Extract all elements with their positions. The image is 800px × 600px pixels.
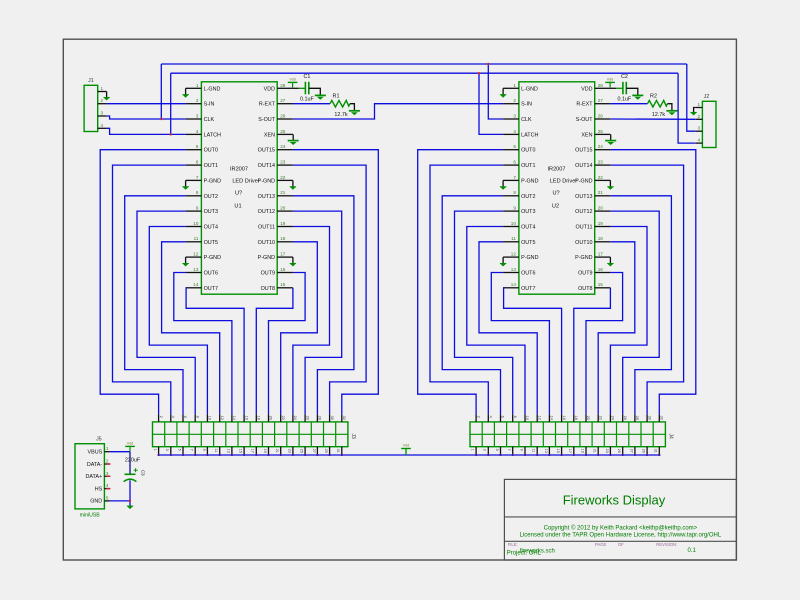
svg-text:2: 2 <box>159 416 163 418</box>
svg-text:24: 24 <box>280 144 286 149</box>
svg-text:5: 5 <box>106 495 109 500</box>
svg-text:5: 5 <box>513 144 516 149</box>
svg-text:CLK: CLK <box>204 117 215 123</box>
svg-text:OF: OF <box>618 542 624 547</box>
svg-text:8: 8 <box>513 416 517 418</box>
svg-text:DATA+: DATA+ <box>85 474 102 480</box>
svg-text:OUT8: OUT8 <box>578 286 592 292</box>
Vdd power symbol at U2 pin 28 <box>609 82 611 87</box>
svg-text:J2: J2 <box>704 94 710 100</box>
svg-text:OUT0: OUT0 <box>204 148 218 154</box>
svg-text:9: 9 <box>519 449 523 451</box>
svg-text:11: 11 <box>511 236 516 241</box>
svg-text:OUT11: OUT11 <box>258 225 275 231</box>
svg-text:25: 25 <box>598 129 604 134</box>
svg-text:P-GND: P-GND <box>204 255 221 261</box>
svg-text:13: 13 <box>544 449 548 453</box>
svg-text:17: 17 <box>598 252 604 257</box>
wire U2 OUT7 to J4 <box>503 288 561 415</box>
svg-text:18: 18 <box>574 416 578 420</box>
svg-text:24: 24 <box>293 416 297 420</box>
svg-text:10: 10 <box>193 221 199 226</box>
svg-text:R2: R2 <box>650 93 657 99</box>
svg-text:LATCH: LATCH <box>204 132 221 138</box>
svg-text:0.1: 0.1 <box>688 548 697 554</box>
resistor R2 <box>648 100 668 107</box>
svg-text:14: 14 <box>193 282 199 287</box>
svg-text:20: 20 <box>586 416 590 420</box>
svg-text:23: 23 <box>280 160 286 165</box>
svg-text:OUT10: OUT10 <box>258 240 275 246</box>
J5 unconnected pin cues <box>106 463 110 465</box>
U1 left pin stubs 1-14 <box>186 87 202 89</box>
wire U2 OUT5 to J4 <box>479 242 537 415</box>
svg-text:C1: C1 <box>303 74 310 80</box>
wire U2 OUT12 to J4 <box>610 211 659 414</box>
svg-text:VDD: VDD <box>264 86 275 92</box>
svg-text:1: 1 <box>513 83 516 88</box>
wire U2 OUT14 to J4 <box>610 165 683 414</box>
R1 ground symbol <box>349 110 360 112</box>
wire U1 S-OUT to U2 S-IN <box>293 104 503 119</box>
C2 ground symbol <box>632 94 643 96</box>
svg-text:5: 5 <box>196 144 199 149</box>
svg-text:S-OUT: S-OUT <box>258 117 275 123</box>
wire J1 pin3 to CLK net <box>107 116 186 119</box>
svg-text:18: 18 <box>257 416 261 420</box>
svg-text:Copyright © 2012 by Keith Pack: Copyright © 2012 by Keith Packard <keith… <box>544 525 698 532</box>
svg-text:C2: C2 <box>621 74 628 80</box>
wire U2 OUT11 to J4 <box>610 227 647 415</box>
svg-text:S-IN: S-IN <box>521 102 532 108</box>
connector J2 body <box>702 101 716 147</box>
svg-text:OUT5: OUT5 <box>204 240 218 246</box>
U1 pin12 P-GND ground symbol <box>185 257 187 263</box>
svg-text:OUT3: OUT3 <box>521 209 535 215</box>
U2 R-EXT wire <box>610 103 647 105</box>
U2 right pin stubs 15-28 <box>595 87 611 89</box>
svg-text:OUT1: OUT1 <box>521 163 535 169</box>
svg-text:11: 11 <box>214 449 218 453</box>
svg-text:Licensed under the TAPR Open H: Licensed under the TAPR Open Hardware Li… <box>520 533 722 539</box>
svg-text:17: 17 <box>568 449 572 453</box>
R2 ground wire <box>668 104 672 111</box>
wire CLK tap to U2 pin3 <box>488 64 503 119</box>
wire U1 OUT1 to J3 <box>113 165 186 414</box>
svg-text:3: 3 <box>165 449 169 451</box>
svg-text:Vdd: Vdd <box>607 78 613 82</box>
svg-text:25: 25 <box>300 449 304 453</box>
svg-text:12: 12 <box>511 252 517 257</box>
Vdd power symbol at VBUS <box>129 446 131 451</box>
svg-text:6: 6 <box>501 416 505 418</box>
svg-text:J4: J4 <box>668 434 674 440</box>
svg-text:OUT2: OUT2 <box>204 194 218 200</box>
svg-text:27: 27 <box>598 98 604 103</box>
wire U2 S-OUT to J2 pin2 <box>610 118 695 120</box>
svg-text:P-GND: P-GND <box>258 178 275 184</box>
svg-text:21: 21 <box>280 190 286 195</box>
wire LATCH bus riser at U1 <box>170 73 172 134</box>
svg-text:4: 4 <box>489 416 493 418</box>
wire U2 OUT8 to J4 <box>574 288 611 415</box>
wire VBUS to capacitor C3 <box>129 452 131 475</box>
svg-text:29: 29 <box>642 449 646 453</box>
wire J1 pin2 S-IN to U1 pin2 <box>107 103 186 105</box>
svg-text:32: 32 <box>660 416 664 420</box>
svg-text:17: 17 <box>251 449 255 453</box>
svg-text:2: 2 <box>106 459 109 464</box>
svg-text:R-EXT: R-EXT <box>576 102 593 108</box>
svg-text:REVISION:: REVISION: <box>656 542 677 547</box>
svg-text:5: 5 <box>495 449 499 451</box>
svg-text:IR2007: IR2007 <box>547 167 565 173</box>
svg-text:Fireworks Display: Fireworks Display <box>563 493 666 508</box>
svg-text:OUT8: OUT8 <box>261 286 275 292</box>
junction LATCH tap <box>478 72 480 74</box>
U2 pin22 P-GND ground symbol <box>609 180 611 186</box>
capacitor C1 <box>299 87 306 89</box>
wire J5 GND to ground net <box>110 500 130 502</box>
ground symbol below C3 <box>127 506 133 509</box>
U1 pin17 P-GND ground symbol <box>292 257 294 263</box>
svg-text:OUT10: OUT10 <box>575 240 592 246</box>
svg-text:0.1uF: 0.1uF <box>618 97 632 103</box>
svg-text:17: 17 <box>280 252 286 257</box>
svg-text:4: 4 <box>101 123 104 128</box>
svg-text:12: 12 <box>193 252 199 257</box>
svg-text:28: 28 <box>635 416 639 420</box>
svg-text:31: 31 <box>654 449 658 453</box>
svg-text:J5: J5 <box>96 437 102 443</box>
svg-text:XEN: XEN <box>264 132 275 138</box>
svg-text:1: 1 <box>698 102 701 107</box>
svg-text:C3: C3 <box>141 470 146 476</box>
svg-text:VBUS: VBUS <box>88 450 103 456</box>
svg-text:30: 30 <box>647 416 651 420</box>
wire U2 OUT4 to J4 <box>467 227 525 415</box>
connector J3 2x16 header body <box>153 422 348 447</box>
svg-text:19: 19 <box>263 449 267 453</box>
svg-text:24: 24 <box>598 144 604 149</box>
svg-text:15: 15 <box>556 449 560 453</box>
svg-text:L-GND: L-GND <box>521 86 538 92</box>
svg-text:32: 32 <box>342 416 346 420</box>
J3 bottom pin stubs <box>158 447 160 455</box>
svg-text:OUT15: OUT15 <box>258 148 275 154</box>
svg-text:6: 6 <box>196 160 199 165</box>
U2 pin1 L-GND ground symbol <box>502 88 504 94</box>
svg-text:26: 26 <box>598 113 604 118</box>
svg-text:13: 13 <box>226 449 230 453</box>
svg-text:miniUSB: miniUSB <box>80 513 101 519</box>
IC U2 IR2007 LED driver body <box>519 82 595 294</box>
svg-text:IR2007: IR2007 <box>230 167 248 173</box>
svg-text:PAGE: PAGE <box>595 542 607 547</box>
wire Vdd bottom bus <box>158 454 661 456</box>
U1 right pin stubs 15-28 <box>277 87 293 89</box>
svg-text:25: 25 <box>617 449 621 453</box>
svg-text:31: 31 <box>336 449 340 453</box>
svg-text:R-EXT: R-EXT <box>259 102 276 108</box>
svg-text:6: 6 <box>183 416 187 418</box>
svg-text:7: 7 <box>507 449 511 451</box>
svg-text:P-GND: P-GND <box>204 178 221 184</box>
J4 top pin stubs <box>475 414 477 422</box>
U2 pin25 XEN ground <box>610 134 612 140</box>
svg-text:3: 3 <box>483 449 487 451</box>
svg-text:4: 4 <box>513 129 516 134</box>
U2 VDD pin28 wire <box>610 87 616 89</box>
connector J1 body <box>84 85 98 131</box>
title block divider 1 <box>504 516 736 518</box>
U1 R-EXT wire <box>293 103 330 105</box>
svg-text:12: 12 <box>220 416 224 420</box>
J2 pin stubs <box>696 107 703 109</box>
svg-text:30: 30 <box>330 416 334 420</box>
svg-text:1: 1 <box>106 446 109 451</box>
svg-text:OUT12: OUT12 <box>575 209 592 215</box>
svg-text:OUT9: OUT9 <box>261 271 275 277</box>
wire LATCH bus horizontal <box>171 72 678 74</box>
svg-text:2: 2 <box>101 98 104 103</box>
svg-text:14: 14 <box>232 416 236 420</box>
svg-text:13: 13 <box>511 267 517 272</box>
svg-text:HS: HS <box>95 486 103 492</box>
capacitor C3 polarized 220uF <box>125 473 136 475</box>
svg-text:15: 15 <box>239 449 243 453</box>
svg-text:16: 16 <box>562 416 566 420</box>
svg-text:21: 21 <box>598 190 604 195</box>
svg-text:7: 7 <box>513 175 516 180</box>
capacitor C2 <box>616 87 623 89</box>
svg-text:2: 2 <box>698 114 701 119</box>
svg-text:OUT7: OUT7 <box>521 286 535 292</box>
svg-text:16: 16 <box>244 416 248 420</box>
svg-text:2: 2 <box>513 98 516 103</box>
J4 bottom bus junction dots <box>475 454 477 456</box>
svg-text:OUT14: OUT14 <box>258 163 275 169</box>
svg-text:XEN: XEN <box>581 132 592 138</box>
svg-text:15: 15 <box>280 282 286 287</box>
svg-text:18: 18 <box>598 236 604 241</box>
svg-text:5: 5 <box>177 449 181 451</box>
svg-text:P-GND: P-GND <box>521 255 538 261</box>
U2 pin12 P-GND ground symbol <box>502 257 504 263</box>
svg-text:9: 9 <box>513 206 516 211</box>
J5 pin stubs <box>104 451 110 453</box>
svg-text:13: 13 <box>193 267 199 272</box>
svg-text:3: 3 <box>196 113 199 118</box>
svg-text:LED Driver: LED Driver <box>232 178 259 184</box>
wire U1 OUT8 to J3 <box>256 288 293 415</box>
svg-text:28: 28 <box>280 83 286 88</box>
svg-text:OUT6: OUT6 <box>204 271 218 277</box>
svg-text:P-GND: P-GND <box>521 178 538 184</box>
svg-text:J3: J3 <box>350 434 356 440</box>
svg-text:OUT2: OUT2 <box>521 194 535 200</box>
svg-text:4: 4 <box>171 416 175 418</box>
wire U2 OUT1 to J4 <box>430 165 503 414</box>
resistor R1 <box>330 100 350 107</box>
svg-text:1: 1 <box>153 449 157 451</box>
wire U1 OUT6 to J3 <box>174 273 232 415</box>
svg-text:14: 14 <box>511 282 517 287</box>
svg-text:4: 4 <box>196 129 199 134</box>
svg-text:DATA-: DATA- <box>87 462 103 468</box>
svg-text:16: 16 <box>598 267 604 272</box>
wire U1 OUT5 to J3 <box>162 242 220 415</box>
svg-text:8: 8 <box>513 190 516 195</box>
svg-text:OUT9: OUT9 <box>578 271 592 277</box>
svg-text:Project: OHL: Project: OHL <box>507 551 542 557</box>
svg-text:22: 22 <box>280 175 286 180</box>
R1 ground wire <box>350 104 354 111</box>
svg-text:29: 29 <box>324 449 328 453</box>
svg-text:9: 9 <box>196 206 199 211</box>
svg-text:21: 21 <box>593 449 597 453</box>
svg-text:OUT15: OUT15 <box>575 148 592 154</box>
wire U2 OUT13 to J4 <box>610 196 671 415</box>
svg-text:10: 10 <box>511 221 517 226</box>
svg-text:3: 3 <box>106 471 109 476</box>
svg-text:22: 22 <box>281 416 285 420</box>
wire J5 VBUS to Vdd <box>110 451 130 453</box>
svg-text:2: 2 <box>196 98 199 103</box>
wire U1 OUT13 to J3 <box>293 196 354 415</box>
wire U2 OUT15 to J4 <box>610 150 695 415</box>
U1 pin25 XEN ground <box>292 134 294 140</box>
svg-text:U2: U2 <box>552 204 559 210</box>
J3 top pin stubs <box>158 414 160 422</box>
svg-text:VDD: VDD <box>581 86 592 92</box>
svg-text:26: 26 <box>280 113 286 118</box>
wire LATCH to J2 pin4 <box>678 73 696 143</box>
svg-text:11: 11 <box>532 449 536 453</box>
svg-text:3: 3 <box>513 113 516 118</box>
junction CLK tap <box>487 63 489 65</box>
svg-text:OUT1: OUT1 <box>204 163 218 169</box>
svg-text:OUT4: OUT4 <box>521 225 535 231</box>
svg-text:28: 28 <box>318 416 322 420</box>
U1 pin22 P-GND ground symbol <box>292 180 294 186</box>
wire U1 OUT0 to J3 <box>100 150 185 415</box>
svg-text:1: 1 <box>101 86 104 91</box>
svg-text:Vdd: Vdd <box>289 78 295 82</box>
svg-text:4: 4 <box>698 138 701 143</box>
junction CLK at U1 <box>160 118 162 120</box>
svg-text:P-GND: P-GND <box>258 255 275 261</box>
wire U1 OUT7 to J3 <box>186 288 245 415</box>
svg-text:S-IN: S-IN <box>204 102 215 108</box>
svg-text:18: 18 <box>280 236 286 241</box>
R2 ground symbol <box>666 110 677 112</box>
svg-text:12.7k: 12.7k <box>334 112 347 118</box>
IC U1 IR2007 LED driver body <box>201 82 277 294</box>
svg-text:14: 14 <box>550 416 554 420</box>
svg-text:28: 28 <box>598 83 604 88</box>
wire U2 OUT6 to J4 <box>491 273 549 415</box>
svg-text:1: 1 <box>471 449 475 451</box>
svg-text:OUT5: OUT5 <box>521 240 535 246</box>
svg-text:CLK: CLK <box>521 117 532 123</box>
J1 pin1 ground wire and symbol <box>106 92 108 98</box>
svg-text:LATCH: LATCH <box>521 132 538 138</box>
svg-text:19: 19 <box>280 221 286 226</box>
svg-text:P-GND: P-GND <box>575 178 592 184</box>
U2 pin17 P-GND ground symbol <box>609 257 611 263</box>
svg-text:27: 27 <box>312 449 316 453</box>
svg-text:S-OUT: S-OUT <box>576 117 593 123</box>
svg-text:26: 26 <box>305 416 309 420</box>
C2 ground wire <box>626 88 638 95</box>
wire U1 OUT11 to J3 <box>293 227 330 415</box>
svg-text:6: 6 <box>513 160 516 165</box>
U1 pin7 P-GND ground symbol <box>185 180 187 186</box>
wire LATCH tap to U2 pin4 <box>479 73 503 134</box>
U2 pin7 P-GND ground symbol <box>502 180 504 186</box>
svg-text:22: 22 <box>598 175 604 180</box>
svg-text:12: 12 <box>537 416 541 420</box>
svg-text:8: 8 <box>196 190 199 195</box>
svg-text:OUT13: OUT13 <box>575 194 592 200</box>
C1 ground wire <box>309 88 321 95</box>
svg-text:OUT7: OUT7 <box>204 286 218 292</box>
svg-text:7: 7 <box>196 175 199 180</box>
connector J4 2x16 header body <box>470 422 665 447</box>
svg-text:Vdd: Vdd <box>127 442 133 446</box>
wire U1 OUT15 to J3 <box>293 150 378 415</box>
svg-text:16: 16 <box>280 267 286 272</box>
junction GND net <box>129 500 131 502</box>
svg-text:OUT3: OUT3 <box>204 209 218 215</box>
Vdd power symbol on bottom bus <box>405 449 407 456</box>
svg-text:FILE:: FILE: <box>508 542 518 547</box>
junction LATCH at U1 <box>170 133 172 135</box>
svg-text:15: 15 <box>598 282 604 287</box>
svg-text:LED Driver: LED Driver <box>550 178 577 184</box>
svg-text:U1: U1 <box>234 204 241 210</box>
title block outer box <box>504 479 736 560</box>
svg-text:3: 3 <box>698 126 701 131</box>
svg-text:4: 4 <box>106 483 109 488</box>
svg-text:10: 10 <box>208 416 212 420</box>
wire C3 to ground <box>129 480 131 506</box>
wire U2 OUT9 to J4 <box>586 273 623 415</box>
svg-text:20: 20 <box>598 206 604 211</box>
J3 bottom bus junction dots <box>158 454 160 456</box>
svg-text:OUT0: OUT0 <box>521 148 535 154</box>
svg-text:10: 10 <box>525 416 529 420</box>
svg-text:9: 9 <box>202 449 206 451</box>
svg-text:7: 7 <box>190 449 194 451</box>
J1 pin stubs <box>98 91 107 93</box>
svg-text:21: 21 <box>275 449 279 453</box>
wire U1 OUT12 to J3 <box>293 211 342 414</box>
svg-text:OUT12: OUT12 <box>258 209 275 215</box>
svg-text:27: 27 <box>280 98 286 103</box>
svg-text:OUT13: OUT13 <box>258 194 275 200</box>
wire CLK to J2 pin3 <box>687 64 696 131</box>
svg-text:U?: U? <box>553 191 560 197</box>
J4 bottom pin stubs <box>475 447 477 455</box>
svg-text:J1: J1 <box>88 78 94 84</box>
svg-text:23: 23 <box>605 449 609 453</box>
wire U2 OUT10 to J4 <box>598 242 635 415</box>
sheet border frame <box>63 39 736 560</box>
svg-text:12.7k: 12.7k <box>652 112 665 118</box>
wire CLK bus horizontal <box>161 63 687 65</box>
